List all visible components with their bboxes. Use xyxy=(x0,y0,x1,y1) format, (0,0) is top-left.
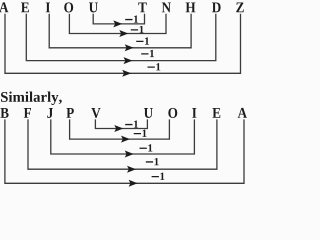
letter E (top row) xyxy=(21,2,29,12)
arrowhead I-H xyxy=(125,44,134,51)
letter T (top row) xyxy=(138,2,146,12)
arrowhead J-I xyxy=(125,151,134,158)
letter H (top row) xyxy=(186,2,196,12)
wire O to N xyxy=(69,14,166,34)
label -1 (U-T) xyxy=(125,16,138,23)
label -1 (P-O) xyxy=(134,130,147,137)
caption Similarly, xyxy=(1,92,62,105)
letter I (bottom row) xyxy=(192,108,196,118)
wire A to Z xyxy=(5,14,241,74)
label -1 (V-U) xyxy=(125,121,138,128)
letter N (top row) xyxy=(162,2,171,12)
arrowhead F-E xyxy=(127,166,136,173)
arrowhead O-N xyxy=(119,30,128,37)
letter I (top row) xyxy=(46,2,50,12)
wire P to O xyxy=(70,119,170,139)
letter U (bottom row) xyxy=(144,108,153,118)
wire J to I xyxy=(51,119,195,154)
label -1 (O-N) xyxy=(131,26,144,33)
arrowhead B-A xyxy=(129,180,138,187)
label -1 (F-E) xyxy=(146,158,159,165)
label -1 (I-H) xyxy=(136,37,149,44)
letter B (bottom row) xyxy=(0,108,8,118)
wire U to T xyxy=(93,14,144,24)
letter Z (top row) xyxy=(236,2,244,12)
letter J (bottom row) xyxy=(47,108,53,118)
wire F to E xyxy=(28,119,217,169)
arrowhead U-T xyxy=(113,20,122,27)
arrowhead E-D xyxy=(124,57,133,64)
arrowhead P-O xyxy=(121,136,130,143)
label -1 (A-Z) xyxy=(148,63,161,70)
letter V (bottom row) xyxy=(91,108,100,118)
label -1 (B-A) xyxy=(152,173,165,180)
wire I to H xyxy=(49,14,191,48)
letter O (top row) xyxy=(64,2,73,12)
wire E to D xyxy=(26,14,216,61)
letter E (bottom row) xyxy=(212,108,220,118)
arrowhead V-U xyxy=(114,125,123,132)
letter F (bottom row) xyxy=(24,108,31,118)
wire V to U xyxy=(95,119,147,128)
letter P (bottom row) xyxy=(66,108,73,118)
letter U (top row) xyxy=(89,2,98,12)
letter D (top row) xyxy=(212,2,221,12)
wire B to A xyxy=(5,119,244,183)
letter A (bottom row) xyxy=(238,108,247,118)
arrowhead A-Z xyxy=(122,70,131,77)
letter O (bottom row) xyxy=(168,108,177,118)
letter A (top row) xyxy=(0,2,8,12)
label -1 (J-I) xyxy=(140,144,153,151)
label -1 (E-D) xyxy=(141,50,154,57)
